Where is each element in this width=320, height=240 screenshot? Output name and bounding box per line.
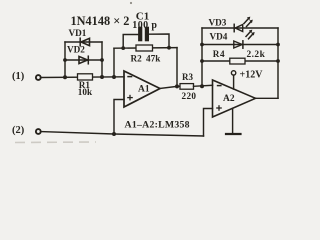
- A2 minus sign: [217, 85, 222, 87]
- svg-text:VD1: VD1: [69, 28, 87, 38]
- scan smudge bottom left: [15, 141, 96, 144]
- svg-text:VD2: VD2: [67, 45, 85, 55]
- junction dot feedback/output: [175, 84, 179, 88]
- A1 minus sign: [127, 76, 132, 78]
- node C (feedback riser junction): [112, 75, 116, 79]
- svg-text:(1): (1): [12, 71, 25, 82]
- svg-text:VD4: VD4: [210, 32, 228, 42]
- wire: diode-loop right rail: [101, 42, 103, 77]
- capacitor C1: [140, 29, 147, 39]
- svg-text:+12V: +12V: [240, 70, 264, 81]
- wire: A2 output: [256, 97, 279, 99]
- scan speck: [130, 2, 132, 4]
- junction dots on LED rails: [200, 43, 280, 63]
- resistor R1: [78, 74, 93, 80]
- wire: A2 non-inverting input from bottom rail: [204, 109, 213, 137]
- svg-text:R3: R3: [182, 72, 193, 82]
- resistor R3: [180, 84, 194, 90]
- wire: feedback riser: [113, 48, 115, 77]
- svg-text:A2: A2: [223, 94, 235, 104]
- node A (left diode-loop junction): [63, 75, 67, 79]
- op-amp A1: [124, 71, 160, 107]
- resistor R4: [230, 58, 245, 64]
- wire: VD3 branch: [202, 27, 278, 29]
- ground: [226, 133, 241, 135]
- wire: LED block left rail: [201, 28, 203, 86]
- wire: R2 branch: [114, 47, 177, 50]
- wire: +12V stem: [233, 75, 235, 89]
- node B (right diode-loop junction): [100, 75, 104, 79]
- diode VD3 (LED, points left): [234, 17, 253, 32]
- wire: diode-loop left rail: [64, 42, 66, 77]
- wire: LED block right rail: [277, 28, 279, 98]
- svg-text:R2: R2: [131, 54, 143, 64]
- wire: A1 output to R3: [160, 86, 180, 88]
- svg-text:A1: A1: [138, 85, 150, 95]
- svg-text:A1–A2:LM358: A1–A2:LM358: [125, 120, 190, 131]
- svg-text:100 p: 100 p: [132, 20, 157, 31]
- svg-text:(2): (2): [12, 125, 25, 136]
- resistor R2: [136, 45, 153, 51]
- wire: bottom rail from terminal (2): [41, 132, 204, 136]
- wire: R3 to A2 inverting input: [194, 85, 213, 86]
- wire: feedback right drop: [176, 48, 178, 87]
- wire: C1 left riser: [123, 35, 139, 49]
- diode VD2 (points right): [79, 56, 88, 64]
- diode VD1 (points left): [80, 38, 89, 46]
- wire: input (1) to A1 inverting input: [41, 76, 124, 79]
- wire: A1 non-inverting riser: [114, 100, 124, 135]
- svg-text:R4: R4: [213, 49, 225, 59]
- junction dot bottom rail / A1 + riser: [112, 132, 116, 136]
- junction dot LED-block left rail bottom: [200, 84, 204, 88]
- background paper: [0, 0, 291, 147]
- svg-text:47k: 47k: [146, 54, 161, 64]
- wire: VD1 branch: [65, 41, 102, 43]
- junction dot C1 left tee: [121, 46, 125, 50]
- wire: VD4 branch: [202, 44, 278, 46]
- junction dot C1 right join: [167, 46, 171, 50]
- wire: C1 right lead: [149, 34, 169, 48]
- wire: R4 branch: [202, 60, 278, 62]
- A2 plus sign: [216, 105, 222, 111]
- terminal (1): [36, 75, 41, 80]
- svg-text:VD3: VD3: [209, 18, 227, 28]
- svg-text:220: 220: [182, 91, 197, 101]
- svg-text:2.2k: 2.2k: [247, 50, 266, 60]
- terminal +12V: [231, 71, 235, 75]
- junction dot VD2 right: [100, 58, 104, 62]
- wire: A2 ground stem: [232, 109, 234, 134]
- diode VD4 (LED, points right): [234, 30, 255, 49]
- wire: VD2 branch: [65, 59, 102, 61]
- A1 plus sign: [127, 95, 133, 101]
- op-amp A2: [213, 80, 256, 117]
- junction dot VD2 left: [63, 58, 67, 62]
- terminal (2): [36, 129, 41, 134]
- svg-text:10k: 10k: [78, 87, 93, 97]
- svg-text:1N4148 × 2: 1N4148 × 2: [71, 14, 130, 28]
